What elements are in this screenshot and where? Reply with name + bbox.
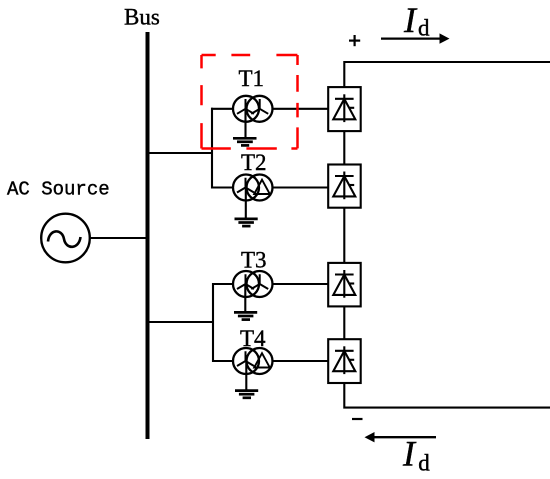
current arrow top	[381, 33, 450, 43]
wire T4 to valve V4	[272, 360, 329, 362]
svg-text:T1: T1	[239, 66, 265, 91]
current arrow bottom	[365, 432, 437, 442]
wire T3 to valve V3	[272, 283, 329, 285]
wire to T4 primary	[212, 360, 234, 362]
highlight box around T1 (red dashed)	[202, 55, 298, 149]
upper junction vertical wire	[211, 108, 213, 189]
ground T1	[233, 109, 257, 146]
wire to T2 primary	[211, 186, 234, 188]
bus bar	[146, 32, 150, 439]
current label Id bottom	[402, 434, 430, 476]
ground T4	[235, 361, 258, 398]
wire T1 to valve V1	[272, 108, 329, 110]
transformer T2 (Y-D)	[233, 175, 273, 201]
wire V1 to V2	[343, 131, 345, 164]
wire to T3 primary	[212, 283, 234, 285]
wire bus to lower junction	[146, 321, 214, 323]
svg-text:d: d	[418, 16, 430, 41]
svg-text:Bus: Bus	[124, 5, 160, 30]
converter valve V1	[328, 87, 361, 131]
wire bus to upper junction	[146, 152, 213, 154]
wire V2 to V3	[343, 208, 345, 263]
transformer T3 (Y-Y)	[233, 271, 273, 297]
positive rail	[344, 62, 550, 87]
converter valve V2	[328, 165, 361, 208]
ground T2	[235, 188, 258, 227]
wire G1 to bus	[90, 237, 146, 239]
wire T2 to valve V2	[272, 186, 329, 188]
svg-text:AC Source: AC Source	[7, 179, 110, 201]
svg-text:d: d	[418, 450, 430, 475]
current label Id top	[403, 0, 430, 41]
wire to T1 primary	[211, 108, 234, 110]
label plus	[349, 35, 360, 46]
converter valve V3	[328, 263, 361, 307]
svg-text:I: I	[403, 0, 418, 40]
AC source G1	[41, 214, 90, 263]
svg-text:T3: T3	[241, 248, 267, 273]
converter valve V4	[328, 339, 361, 383]
label minus	[352, 418, 363, 420]
negative rail	[344, 383, 550, 408]
svg-text:I: I	[402, 434, 417, 474]
transformer T1 (Y-Y)	[233, 96, 273, 122]
ground T3	[234, 284, 257, 320]
svg-text:T2: T2	[241, 150, 267, 175]
transformer T4 (Y-D)	[233, 348, 273, 374]
lower junction vertical wire	[212, 283, 214, 362]
wire V3 to V4	[343, 306, 345, 339]
